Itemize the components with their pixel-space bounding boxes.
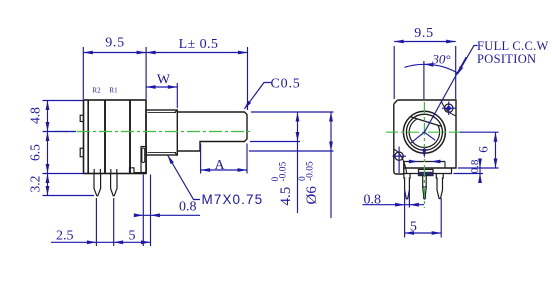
bushing chamfer bottom-right <box>175 152 178 155</box>
dim 0.8 right line <box>479 159 481 183</box>
dim 6 line <box>495 132 497 168</box>
svg-text:0.8: 0.8 <box>469 159 481 173</box>
bottom dim line 2.5 and 5 <box>51 241 151 243</box>
ext flat right <box>250 141 300 143</box>
svg-text:4.5: 4.5 <box>278 187 294 206</box>
arrow 3.2 bottom <box>46 186 50 196</box>
arrow 3.2 top <box>46 174 50 184</box>
arrow 0.8 left outside <box>134 213 144 217</box>
ext bracket bottom right <box>454 173 484 175</box>
middle terminal box band <box>419 172 434 176</box>
front internal bottom line <box>404 161 445 163</box>
leader FULL CCW <box>458 46 478 75</box>
arrow C0.5 leader <box>242 101 251 111</box>
svg-text:FULL C.C.W: FULL C.C.W <box>477 39 549 53</box>
arrow 6.5 top <box>46 132 50 142</box>
terminal pin 1 (side) <box>94 174 101 196</box>
arrow 6 bottom <box>494 159 498 169</box>
ext pin tip left <box>43 195 95 197</box>
svg-text:6: 6 <box>476 146 491 153</box>
svg-text:R2: R2 <box>92 87 101 95</box>
ext A right <box>246 144 248 174</box>
ext centerline left <box>43 131 77 133</box>
dim L extension right <box>247 47 249 110</box>
svg-text:2.5: 2.5 <box>56 229 74 244</box>
bracket pointer line <box>423 148 425 152</box>
dim 4.5 line <box>297 112 299 213</box>
dim 0.8 line (side) <box>136 214 200 216</box>
slot position radial SE <box>424 132 435 140</box>
ext shaft bottom right <box>249 150 334 152</box>
shaft flat chord <box>410 117 441 127</box>
arrow 2.5 right outside <box>114 240 124 244</box>
front centerline horizontal <box>386 131 464 133</box>
svg-text:3.2: 3.2 <box>28 176 43 193</box>
svg-text:C0.5: C0.5 <box>271 77 301 92</box>
svg-text:Ø6: Ø6 <box>304 186 320 205</box>
svg-text:0.8: 0.8 <box>364 193 382 208</box>
front pin right <box>436 174 443 199</box>
arrow 6.5 bottom <box>46 164 50 174</box>
svg-text:4.8: 4.8 <box>28 107 43 124</box>
arrow A left <box>201 168 211 172</box>
shaft outline with flat and chamfer <box>177 112 247 151</box>
front view blue details <box>363 42 499 238</box>
arrow 9.5 left <box>83 51 93 55</box>
ext centerline right <box>460 131 499 133</box>
arrow 0.8R bottom outside <box>478 174 482 184</box>
svg-text:POSITION: POSITION <box>477 52 536 66</box>
hole crosshair bottom-left v <box>398 147 400 174</box>
arrow 0.8R top outside <box>478 159 482 169</box>
front dim 5 line <box>405 232 442 234</box>
thread minor line top <box>148 112 177 114</box>
arrow 4.8 bottom <box>46 122 50 132</box>
leader C0.5 <box>245 83 272 109</box>
arrow L right <box>238 51 248 55</box>
ext body bottom left <box>43 173 84 175</box>
arrow 5 right <box>141 240 151 244</box>
svg-text:30°: 30° <box>431 52 450 67</box>
arrow 4.5 top <box>296 112 300 122</box>
front centerline vertical <box>423 102 425 208</box>
arrow W right <box>168 85 178 89</box>
bracket bottom line <box>404 168 452 174</box>
middle pin band <box>423 186 426 188</box>
ext pin2 center <box>113 198 115 246</box>
arrow 4.5 bottom <box>296 132 300 142</box>
arrow W left <box>146 85 156 89</box>
svg-text:5: 5 <box>129 229 136 244</box>
body lamination line 3 <box>129 100 131 174</box>
arrow 9.5F left <box>394 40 404 44</box>
dim dia6 line <box>330 112 332 218</box>
vertical reference ray <box>423 61 425 99</box>
text 4.5 with tolerance rotated <box>271 161 294 205</box>
shaft inner circle <box>409 119 439 148</box>
ext body bottom right <box>458 167 499 169</box>
cover clip upper <box>80 115 83 121</box>
arrow 2.5 left outside <box>87 240 97 244</box>
svg-text:W: W <box>157 73 171 88</box>
arrow 5F left <box>405 231 415 235</box>
dim W extension right <box>176 83 178 108</box>
svg-text:9.5: 9.5 <box>105 36 125 51</box>
arrow 5F right <box>432 231 442 235</box>
pin1 root marks <box>93 169 95 174</box>
dim A line <box>201 169 247 171</box>
front pin left <box>404 174 410 199</box>
dim 9.5 / L extension middle <box>145 47 147 99</box>
hole crosshair bottom-left h <box>392 155 406 157</box>
arrow leader FULLCCW <box>455 66 463 76</box>
arrow 9.5F right <box>446 40 456 44</box>
front dim 0.8 line <box>363 204 425 206</box>
arrow dia6 top <box>329 112 333 122</box>
bottom-left boss arc <box>394 149 407 174</box>
side view body outline <box>84 100 147 174</box>
svg-text:0.8: 0.8 <box>179 200 197 215</box>
side view centerline <box>55 131 251 133</box>
body lamination line 2 <box>104 100 106 174</box>
slot position radial SW <box>411 132 425 143</box>
ext lug left <box>142 175 144 247</box>
front pin middle <box>423 176 427 199</box>
front dim 9.5 line <box>394 41 456 43</box>
ext A left <box>200 144 202 174</box>
svg-text:-0.05: -0.05 <box>306 161 316 181</box>
left dim vertical line <box>47 101 49 196</box>
hole crosshair top-right v <box>448 102 450 116</box>
ext front pin left b <box>408 190 410 208</box>
mounting hole top-right <box>445 104 453 112</box>
arrow A right <box>238 168 248 172</box>
front dim 9.5 ext left <box>393 46 395 99</box>
bushing chamfer top-right <box>175 110 178 113</box>
threaded bushing M7 <box>146 110 177 155</box>
top-right boss arc <box>441 100 456 116</box>
ext front pin left a <box>404 190 406 238</box>
svg-text:6.5: 6.5 <box>28 144 43 161</box>
thread minor line bottom <box>148 151 177 153</box>
svg-text:L± 0.5: L± 0.5 <box>179 37 219 52</box>
arrow M7 leader <box>166 154 174 164</box>
svg-text:R1: R1 <box>109 87 118 95</box>
body lamination line 1 <box>87 100 89 174</box>
arrow 0.8 right outside <box>151 213 161 217</box>
mounting hole bottom-left <box>395 152 403 160</box>
cover clip lower <box>80 148 83 157</box>
angular dim arc <box>405 64 459 73</box>
locating lug slot <box>142 148 145 163</box>
terminal pin 2 (side) <box>111 174 117 196</box>
svg-text:5: 5 <box>410 220 417 235</box>
arrow 9.5 right <box>137 51 147 55</box>
ext shaft top right <box>251 111 334 113</box>
dim line 9.5 and L <box>83 52 247 54</box>
ext pin1 center <box>95 198 97 246</box>
arrow L left <box>146 51 156 55</box>
front right boss edge <box>444 162 446 169</box>
arrow bracket pointer <box>422 149 426 159</box>
arrow 0.8F left outside <box>395 203 405 207</box>
pin2 root marks <box>110 169 112 174</box>
arrow pinwidth right <box>431 160 441 164</box>
shaft circle <box>406 114 442 150</box>
body bottom step <box>130 168 142 174</box>
ext body top left <box>43 100 84 102</box>
middle terminal box <box>419 169 434 175</box>
ext front pin right tip <box>440 198 442 238</box>
arrow arc left <box>424 62 434 66</box>
dim 9.5 extension left <box>82 47 84 99</box>
front dim 9.5 ext right <box>455 46 457 99</box>
ext lug right <box>150 175 152 247</box>
bushing circle outer <box>403 111 445 153</box>
locating lug (side) <box>141 147 146 173</box>
svg-text:A: A <box>214 158 225 173</box>
arrow 0.8F right outside <box>409 203 419 207</box>
hole crosshair top-right h <box>442 107 456 109</box>
30 deg position ray <box>424 57 466 132</box>
leader M7X0.75 <box>168 155 201 200</box>
arrow 4.8 top <box>46 101 50 111</box>
svg-text:9.5: 9.5 <box>414 26 434 41</box>
arrow dia6 bottom <box>329 142 333 152</box>
arrow pinwidth left <box>409 160 419 164</box>
svg-text:M7X0.75: M7X0.75 <box>202 192 264 207</box>
front body outline <box>394 100 456 174</box>
svg-text:-0.05: -0.05 <box>279 161 289 181</box>
text dia6 with tolerance rotated <box>298 161 320 205</box>
arrow 6 top <box>494 132 498 142</box>
dim W line <box>146 86 177 88</box>
